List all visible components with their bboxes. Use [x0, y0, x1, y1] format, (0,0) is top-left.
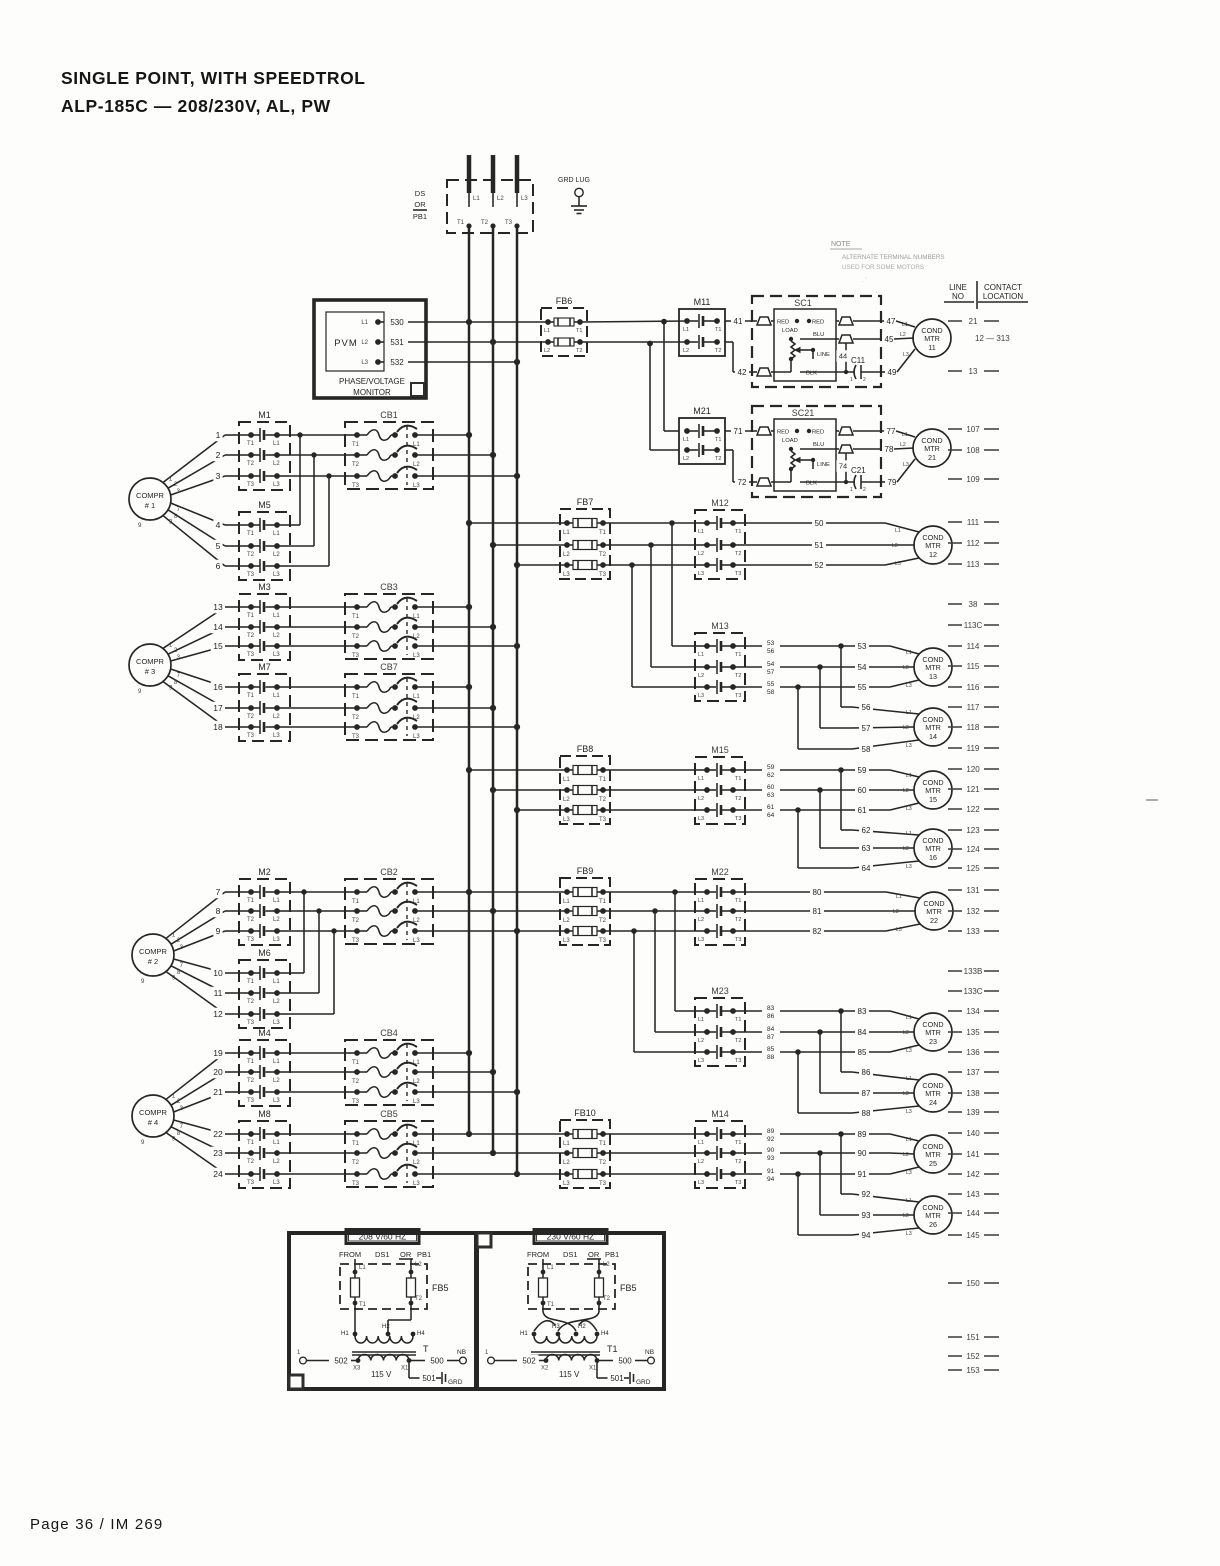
svg-text:M6: M6: [258, 948, 271, 958]
svg-text:133: 133: [966, 927, 980, 936]
svg-text:COMPR: COMPR: [139, 1108, 168, 1117]
svg-text:MTR: MTR: [925, 1089, 941, 1098]
svg-text:L3: L3: [903, 462, 909, 468]
svg-text:T2: T2: [735, 796, 741, 802]
svg-text:L2: L2: [698, 551, 704, 557]
svg-text:X2: X2: [541, 1366, 549, 1372]
svg-text:144: 144: [966, 1209, 980, 1218]
svg-text:L3: L3: [413, 938, 420, 944]
svg-text:L1: L1: [698, 529, 704, 535]
svg-text:2: 2: [216, 450, 221, 460]
svg-text:L3: L3: [563, 1181, 570, 1187]
svg-text:L2: L2: [273, 999, 280, 1005]
svg-text:13: 13: [929, 672, 937, 681]
svg-text:10: 10: [213, 968, 223, 978]
svg-text:140: 140: [966, 1129, 980, 1138]
svg-text:91: 91: [858, 1170, 867, 1179]
svg-text:T2: T2: [576, 348, 582, 354]
svg-text:88: 88: [767, 1054, 775, 1061]
svg-text:T2: T2: [599, 797, 607, 803]
svg-text:L1: L1: [563, 899, 570, 905]
svg-text:PVM: PVM: [334, 338, 358, 349]
svg-text:M14: M14: [711, 1109, 729, 1119]
svg-text:LINE: LINE: [817, 462, 830, 468]
svg-text:MTR: MTR: [924, 334, 940, 343]
svg-text:T2: T2: [352, 462, 360, 468]
svg-text:RED: RED: [777, 320, 789, 326]
svg-text:T1: T1: [599, 777, 607, 783]
svg-text:84: 84: [858, 1028, 867, 1037]
svg-text:51: 51: [815, 541, 824, 550]
svg-text:89: 89: [858, 1130, 867, 1139]
svg-text:25: 25: [929, 1159, 937, 1168]
svg-text:T2: T2: [247, 999, 255, 1005]
svg-text:Page 36 / IM 269: Page 36 / IM 269: [30, 1516, 163, 1533]
svg-text:L1: L1: [683, 327, 689, 333]
svg-text:T3: T3: [599, 572, 607, 578]
svg-text:L2: L2: [273, 552, 280, 558]
svg-text:M13: M13: [711, 621, 729, 631]
svg-text:CB2: CB2: [380, 867, 398, 877]
svg-text:L3: L3: [906, 1170, 912, 1176]
svg-text:L1: L1: [698, 1017, 704, 1023]
svg-text:1: 1: [850, 377, 853, 383]
svg-text:USED FOR SOME MOTORS: USED FOR SOME MOTORS: [842, 264, 924, 271]
svg-text:L1: L1: [361, 320, 368, 326]
svg-text:61: 61: [767, 804, 775, 811]
svg-text:77: 77: [887, 427, 896, 436]
svg-text:T2: T2: [715, 348, 721, 354]
svg-text:T2: T2: [599, 918, 607, 924]
svg-text:T1: T1: [547, 1302, 555, 1308]
svg-text:FB5: FB5: [432, 1283, 449, 1293]
svg-text:153: 153: [966, 1366, 980, 1375]
svg-text:41: 41: [734, 317, 743, 326]
svg-text:45: 45: [885, 335, 894, 344]
svg-text:L2: L2: [698, 1038, 704, 1044]
svg-text:14: 14: [929, 732, 937, 741]
svg-text:L1: L1: [563, 777, 570, 783]
svg-text:L1: L1: [683, 437, 689, 443]
svg-text:L3: L3: [563, 572, 570, 578]
svg-text:122: 122: [966, 805, 980, 814]
svg-text:119: 119: [967, 744, 980, 753]
svg-text:T1: T1: [599, 530, 607, 536]
svg-text:L3: L3: [906, 1048, 912, 1054]
svg-text:M12: M12: [711, 498, 729, 508]
svg-text:92: 92: [767, 1136, 775, 1143]
svg-text:M22: M22: [711, 867, 729, 877]
svg-text:56: 56: [767, 648, 775, 655]
svg-text:111: 111: [967, 518, 980, 527]
svg-text:MTR: MTR: [925, 723, 941, 732]
svg-text:L3: L3: [273, 1020, 280, 1026]
svg-text:FB5: FB5: [620, 1283, 637, 1293]
svg-text:38: 38: [969, 600, 978, 609]
svg-text:L1: L1: [473, 196, 480, 202]
svg-text:T1: T1: [352, 899, 360, 905]
svg-text:53: 53: [767, 640, 775, 647]
svg-text:GRD LUG: GRD LUG: [558, 177, 590, 184]
svg-text:500: 500: [618, 1356, 632, 1365]
svg-text:T3: T3: [352, 1099, 360, 1105]
svg-text:141: 141: [966, 1150, 980, 1159]
svg-text:L1: L1: [895, 528, 901, 534]
svg-text:16: 16: [929, 853, 937, 862]
svg-text:L1: L1: [273, 441, 280, 447]
svg-text:L1: L1: [698, 1140, 704, 1146]
svg-text:21: 21: [213, 1087, 223, 1097]
svg-text:OR: OR: [400, 1250, 412, 1259]
svg-text:T2: T2: [735, 551, 741, 557]
svg-text:C11: C11: [851, 356, 866, 365]
svg-text:78: 78: [885, 445, 894, 454]
svg-text:152: 152: [966, 1352, 980, 1361]
svg-text:132: 132: [966, 907, 980, 916]
svg-text:115 V: 115 V: [371, 1370, 392, 1379]
svg-text:SC21: SC21: [792, 408, 815, 418]
svg-text:H2: H2: [382, 1324, 390, 1330]
svg-text:62: 62: [767, 772, 775, 779]
svg-text:L1: L1: [906, 773, 912, 779]
svg-text:L1: L1: [906, 1076, 912, 1082]
svg-text:208 V/60 HZ: 208 V/60 HZ: [359, 1232, 407, 1242]
svg-text:L1: L1: [273, 1140, 280, 1146]
svg-text:502: 502: [522, 1356, 536, 1365]
svg-text:L3: L3: [413, 1099, 420, 1105]
svg-text:T3: T3: [352, 483, 360, 489]
svg-text:GRD: GRD: [448, 1379, 463, 1386]
svg-text:L2: L2: [903, 788, 909, 794]
svg-text:T3: T3: [247, 937, 255, 943]
svg-text:L1: L1: [544, 328, 550, 334]
svg-text:L3: L3: [413, 734, 420, 740]
svg-text:58: 58: [862, 745, 871, 754]
svg-text:DS1: DS1: [375, 1250, 390, 1259]
svg-text:CB1: CB1: [380, 410, 398, 420]
svg-text:23: 23: [929, 1037, 937, 1046]
svg-text:SINGLE POINT, WITH SPEEDTROL: SINGLE POINT, WITH SPEEDTROL: [61, 68, 366, 88]
svg-text:113: 113: [967, 560, 980, 569]
svg-text:# 2: # 2: [148, 957, 158, 966]
svg-text:L3: L3: [413, 483, 420, 489]
svg-text:L1: L1: [359, 1265, 366, 1271]
svg-text:T1: T1: [715, 437, 721, 443]
svg-text:57: 57: [767, 669, 775, 676]
svg-text:123: 123: [966, 826, 980, 835]
svg-text:81: 81: [813, 907, 822, 916]
svg-text:T1: T1: [735, 529, 741, 535]
svg-text:MTR: MTR: [925, 1211, 941, 1220]
svg-text:X1: X1: [589, 1366, 597, 1372]
svg-text:T2: T2: [247, 714, 255, 720]
svg-text:T3: T3: [247, 1098, 255, 1104]
svg-text:T2: T2: [247, 461, 255, 467]
svg-text:NB: NB: [645, 1349, 654, 1356]
svg-text:T1: T1: [247, 1059, 255, 1065]
svg-text:18: 18: [213, 722, 223, 732]
svg-text:64: 64: [862, 864, 871, 873]
svg-text:L2: L2: [415, 1262, 422, 1268]
svg-text:NOTE: NOTE: [831, 241, 851, 248]
svg-text:L3: L3: [906, 806, 912, 812]
svg-text:T3: T3: [247, 733, 255, 739]
svg-text:M21: M21: [693, 406, 711, 416]
svg-text:L1: L1: [906, 650, 912, 656]
svg-text:T2: T2: [247, 552, 255, 558]
svg-text:T: T: [423, 1344, 429, 1354]
svg-text:L1: L1: [698, 776, 704, 782]
svg-text:CB7: CB7: [380, 662, 398, 672]
svg-text:L2: L2: [683, 456, 689, 462]
svg-text:H4: H4: [601, 1331, 609, 1337]
svg-text:T3: T3: [247, 482, 255, 488]
svg-text:21: 21: [969, 317, 978, 326]
svg-text:L2: L2: [563, 918, 570, 924]
svg-text:L2: L2: [893, 909, 899, 915]
svg-text:T3: T3: [735, 571, 741, 577]
svg-text:79: 79: [888, 478, 897, 487]
svg-text:L3: L3: [895, 561, 901, 567]
svg-text:116: 116: [967, 683, 980, 692]
svg-text:120: 120: [966, 765, 980, 774]
svg-text:6: 6: [216, 561, 221, 571]
svg-text:22: 22: [930, 916, 938, 925]
svg-text:94: 94: [767, 1176, 775, 1183]
svg-text:T3: T3: [352, 1181, 360, 1187]
svg-text:108: 108: [966, 446, 980, 455]
svg-text:60: 60: [858, 786, 867, 795]
svg-text:T1: T1: [735, 776, 741, 782]
svg-text:L1: L1: [698, 898, 704, 904]
svg-text:L1: L1: [273, 613, 280, 619]
svg-text:H1: H1: [520, 1331, 528, 1337]
svg-text:L1: L1: [563, 1141, 570, 1147]
svg-text:DS1: DS1: [563, 1250, 578, 1259]
svg-text:L3: L3: [698, 693, 704, 699]
svg-text:H4: H4: [417, 1331, 425, 1337]
svg-text:L2: L2: [273, 714, 280, 720]
svg-text:PB1: PB1: [413, 212, 427, 221]
svg-text:54: 54: [767, 661, 775, 668]
svg-text:62: 62: [862, 826, 871, 835]
svg-text:L3: L3: [413, 653, 420, 659]
svg-text:16: 16: [213, 682, 223, 692]
svg-text:MTR: MTR: [925, 1028, 941, 1037]
svg-text:86: 86: [767, 1013, 775, 1020]
svg-text:L2: L2: [361, 340, 368, 346]
svg-text:7: 7: [216, 887, 221, 897]
svg-text:71: 71: [734, 427, 743, 436]
svg-text:L3: L3: [906, 743, 912, 749]
svg-text:M8: M8: [258, 1109, 271, 1119]
svg-text:X3: X3: [353, 1366, 361, 1372]
svg-text:T1: T1: [599, 899, 607, 905]
svg-text:13: 13: [969, 367, 978, 376]
svg-text:L2: L2: [683, 348, 689, 354]
svg-text:FB6: FB6: [556, 296, 573, 306]
svg-text:T1: T1: [735, 1017, 741, 1023]
svg-text:L2: L2: [273, 461, 280, 467]
svg-text:92: 92: [862, 1190, 871, 1199]
svg-text:230 V/60 HZ: 230 V/60 HZ: [547, 1232, 595, 1242]
svg-text:L3: L3: [521, 196, 528, 202]
svg-text:T1: T1: [247, 693, 255, 699]
svg-text:84: 84: [767, 1026, 775, 1033]
svg-text:M7: M7: [258, 662, 271, 672]
svg-text:139: 139: [966, 1108, 980, 1117]
svg-text:L3: L3: [563, 938, 570, 944]
svg-text:53: 53: [858, 642, 867, 651]
svg-text:61: 61: [858, 806, 867, 815]
svg-text:T3: T3: [735, 1058, 741, 1064]
svg-text:133C: 133C: [963, 987, 982, 996]
svg-text:L2: L2: [900, 442, 906, 448]
svg-text:L2: L2: [698, 1159, 704, 1165]
svg-text:L2: L2: [273, 917, 280, 923]
svg-text:T2: T2: [735, 917, 741, 923]
svg-text:64: 64: [767, 812, 775, 819]
svg-text:143: 143: [966, 1190, 980, 1199]
svg-text:50: 50: [815, 519, 824, 528]
svg-text:8: 8: [216, 906, 221, 916]
svg-text:T1: T1: [457, 220, 465, 226]
svg-text:M1: M1: [258, 410, 271, 420]
svg-text:L1: L1: [273, 693, 280, 699]
svg-text:L2: L2: [273, 1078, 280, 1084]
svg-text:BLU: BLU: [813, 332, 824, 338]
svg-text:94: 94: [862, 1231, 871, 1240]
svg-text:CB3: CB3: [380, 582, 398, 592]
svg-text:T1: T1: [247, 898, 255, 904]
svg-text:T1: T1: [247, 441, 255, 447]
svg-text:121: 121: [966, 785, 980, 794]
svg-text:FB10: FB10: [574, 1108, 596, 1118]
svg-text:L2: L2: [413, 1160, 420, 1166]
svg-text:T1: T1: [247, 979, 255, 985]
svg-text:22: 22: [213, 1129, 223, 1139]
svg-text:PHASE/VOLTAGE: PHASE/VOLTAGE: [339, 377, 405, 386]
svg-text:LOAD: LOAD: [782, 438, 798, 444]
svg-text:115: 115: [967, 662, 980, 671]
svg-text:L2: L2: [563, 797, 570, 803]
svg-text:125: 125: [966, 864, 980, 873]
svg-text:5: 5: [216, 541, 221, 551]
svg-text:L2: L2: [892, 543, 898, 549]
svg-text:L3: L3: [273, 1180, 280, 1186]
svg-text:LINE: LINE: [817, 352, 830, 358]
svg-text:CONTACT: CONTACT: [984, 283, 1022, 292]
svg-text:M23: M23: [711, 986, 729, 996]
svg-text:CB5: CB5: [380, 1109, 398, 1119]
svg-text:L2: L2: [563, 552, 570, 558]
svg-text:2: 2: [863, 487, 866, 493]
svg-text:# 4: # 4: [148, 1118, 158, 1127]
svg-text:L2: L2: [563, 1160, 570, 1166]
svg-text:RED: RED: [812, 320, 824, 326]
svg-text:T1: T1: [607, 1344, 618, 1354]
svg-text:T3: T3: [505, 220, 513, 226]
svg-text:L2: L2: [903, 846, 909, 852]
svg-text:L3: L3: [563, 817, 570, 823]
svg-text:L2: L2: [544, 348, 550, 354]
svg-text:90: 90: [858, 1149, 867, 1158]
svg-text:87: 87: [862, 1089, 871, 1098]
svg-text:L2: L2: [698, 673, 704, 679]
svg-text:501: 501: [610, 1374, 624, 1383]
svg-text:L1: L1: [896, 894, 902, 900]
svg-text:501: 501: [422, 1374, 436, 1383]
svg-text:42: 42: [738, 368, 747, 377]
svg-text:L1: L1: [906, 831, 912, 837]
svg-text:12 — 313: 12 — 313: [975, 334, 1010, 343]
svg-text:L3: L3: [273, 1098, 280, 1104]
svg-text:142: 142: [966, 1170, 980, 1179]
svg-text:L3: L3: [906, 1231, 912, 1237]
svg-text:88: 88: [862, 1109, 871, 1118]
svg-text:BLU: BLU: [813, 442, 824, 448]
svg-text:L2: L2: [273, 1159, 280, 1165]
svg-text:M15: M15: [711, 745, 729, 755]
svg-text:L2: L2: [903, 1091, 909, 1097]
svg-text:T3: T3: [247, 572, 255, 578]
svg-text:RED: RED: [777, 430, 789, 436]
svg-text:531: 531: [390, 338, 404, 347]
svg-text:113C: 113C: [964, 621, 983, 630]
svg-text:LOCATION: LOCATION: [983, 292, 1024, 301]
svg-text:86: 86: [862, 1068, 871, 1077]
svg-text:M4: M4: [258, 1028, 271, 1038]
svg-text:57: 57: [862, 724, 871, 733]
svg-text:M11: M11: [694, 297, 711, 307]
svg-text:L1: L1: [547, 1265, 554, 1271]
svg-text:44: 44: [839, 352, 847, 361]
svg-text:58: 58: [767, 689, 775, 696]
svg-text:T3: T3: [735, 693, 741, 699]
svg-text:T2: T2: [247, 1078, 255, 1084]
svg-text:136: 136: [966, 1048, 980, 1057]
svg-text:MTR: MTR: [925, 844, 941, 853]
svg-text:L3: L3: [906, 1109, 912, 1115]
svg-text:83: 83: [858, 1007, 867, 1016]
svg-text:19: 19: [213, 1048, 223, 1058]
svg-text:L2: L2: [900, 332, 906, 338]
svg-text:T1: T1: [247, 1140, 255, 1146]
svg-text:L2: L2: [413, 462, 420, 468]
svg-text:85: 85: [767, 1046, 775, 1053]
svg-text:2: 2: [863, 377, 866, 383]
svg-text:13: 13: [213, 602, 223, 612]
svg-text:15: 15: [929, 795, 937, 804]
svg-text:SC1: SC1: [794, 298, 812, 308]
svg-text:83: 83: [767, 1005, 775, 1012]
svg-text:L3: L3: [698, 1058, 704, 1064]
svg-text:59: 59: [858, 766, 867, 775]
svg-text:532: 532: [390, 358, 404, 367]
svg-text:137: 137: [966, 1068, 980, 1077]
svg-text:60: 60: [767, 784, 775, 791]
svg-text:COMPR: COMPR: [136, 491, 165, 500]
svg-text:L3: L3: [273, 733, 280, 739]
svg-text:L1: L1: [273, 1059, 280, 1065]
svg-text:T2: T2: [599, 1160, 607, 1166]
svg-text:LOAD: LOAD: [782, 328, 798, 334]
svg-text:FB7: FB7: [577, 497, 594, 507]
svg-text:T3: T3: [599, 938, 607, 944]
svg-text:L3: L3: [896, 927, 902, 933]
svg-text:T2: T2: [735, 673, 741, 679]
svg-text:T3: T3: [735, 1180, 741, 1186]
